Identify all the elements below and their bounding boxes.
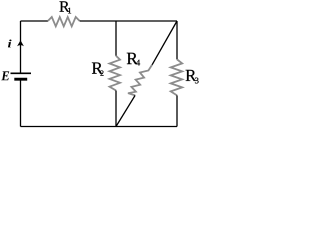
wire R2 branch: top node down to resistor	[115, 21, 117, 56]
resistor R3	[171, 59, 183, 95]
resistor R1	[48, 17, 80, 26]
wire R2 branch: resistor down to bottom node	[115, 91, 117, 127]
label R3	[186, 70, 199, 84]
label i	[8, 40, 12, 48]
wire R4: resistor to bottom node	[116, 95, 135, 126]
label R4	[127, 53, 140, 66]
wire top edge: top-left corner to R1	[21, 20, 48, 22]
wire right edge: R3 to bottom-right corner	[176, 95, 178, 126]
current arrow i (pointing up)	[17, 40, 24, 46]
wire left edge: top-left corner to battery	[20, 21, 22, 73]
battery E positive plate (long)	[11, 72, 32, 74]
label R1	[60, 1, 72, 13]
label E	[1, 71, 9, 80]
wire bottom edge	[21, 126, 178, 128]
resistor R4	[128, 65, 152, 96]
wire right edge: top-right corner to R3	[176, 21, 178, 59]
wire R4: top-right corner to resistor	[152, 21, 177, 65]
wire left edge: battery to bottom-left corner	[20, 79, 22, 126]
label R2	[92, 63, 104, 76]
resistor R2	[110, 56, 121, 91]
wire top edge: node to top-right corner	[116, 20, 177, 22]
battery E negative plate (short thick)	[14, 78, 27, 81]
wire top edge: R1 to node at top of R2	[80, 20, 116, 22]
